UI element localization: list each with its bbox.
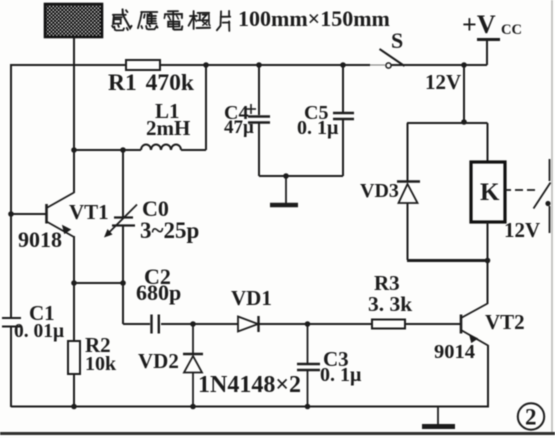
node: junction C3 top — [305, 321, 311, 327]
svg-text:K: K — [480, 179, 500, 206]
svg-text:1N4148×2: 1N4148×2 — [198, 372, 301, 398]
relay coil K — [471, 162, 505, 222]
node: junction top rail / L1 branch — [203, 62, 209, 68]
wire: top rail right of R1 — [160, 64, 370, 66]
wire: relay loop top — [407, 122, 488, 124]
label: sensing electrode text 感應電極片 — [112, 9, 230, 31]
resistor R2 — [68, 341, 80, 374]
wire: VD3 branch upper — [407, 123, 409, 181]
wire: C0 bottom to C2 rail — [123, 283, 150, 324]
svg-text:CC: CC — [501, 22, 522, 38]
label R3 3.3k — [368, 271, 412, 316]
svg-text:2mH: 2mH — [146, 116, 190, 140]
svg-text:VD1: VD1 — [231, 286, 272, 310]
svg-text:R1 470k: R1 470k — [108, 70, 195, 96]
svg-text:0. 01μ: 0. 01μ — [14, 321, 64, 342]
wire: top rail left — [10, 64, 126, 66]
transistor VT1 — [47, 193, 75, 238]
svg-text:2: 2 — [525, 405, 537, 430]
wire: L1 bottom horizontal — [74, 149, 206, 151]
label +Vcc — [462, 10, 522, 39]
svg-text:S: S — [391, 28, 403, 53]
svg-text:VD3: VD3 — [360, 180, 399, 202]
wire: K branch lower — [487, 222, 489, 260]
node: junction electrode lead / L1 wire — [71, 147, 77, 153]
relay contact (dashed link and contact at right) — [505, 159, 551, 233]
svg-text:9014: 9014 — [434, 341, 475, 363]
resistor R1 — [126, 60, 160, 70]
wire: C2 to VD1 — [161, 323, 238, 325]
node: junction R2 bottom — [71, 404, 77, 410]
wire: VT1 emitter vertical — [73, 236, 75, 283]
label C1 0.01u — [14, 301, 64, 342]
capacitor C5 — [333, 65, 354, 176]
wire: VD1 to R3 — [259, 323, 372, 325]
wire: K branch upper — [487, 123, 489, 162]
figure number circled 2 — [518, 403, 544, 429]
label C2 680p — [136, 264, 181, 305]
glyph 應 — [138, 12, 158, 29]
label C4 polarity plus — [246, 104, 256, 114]
svg-text:12V: 12V — [504, 218, 540, 242]
svg-text:10k: 10k — [85, 353, 117, 375]
ground (C4/C5) — [270, 176, 298, 205]
transistor VT2 — [461, 304, 488, 346]
diode VD2 — [183, 324, 203, 407]
wire: VT2 emitter vertical — [487, 345, 489, 408]
svg-text:9018: 9018 — [18, 227, 62, 252]
node: junction switch / 12V branch — [461, 62, 467, 68]
page rule line (bottom) — [0, 432, 555, 435]
label C3 0.1u — [320, 347, 362, 386]
svg-text:100mm×150mm: 100mm×150mm — [238, 6, 390, 31]
sensing electrode plate — [45, 4, 102, 37]
node: junction relay bottom / VT2 collector — [485, 258, 491, 264]
inductor L1 — [141, 145, 181, 151]
svg-text:3. 3k: 3. 3k — [368, 292, 412, 316]
node: junction top rail / C5 — [340, 62, 346, 68]
wire: R3 to VT2 base — [405, 323, 460, 325]
ground (main) — [422, 407, 455, 427]
wire: R2 branch lower — [73, 374, 75, 407]
svg-text:0. 1μ: 0. 1μ — [297, 117, 339, 139]
node: junction top rail / C4 — [256, 62, 262, 68]
capacitor C4 — [248, 65, 270, 176]
svg-text:VD2: VD2 — [138, 349, 179, 373]
variable capacitor C0 — [104, 150, 137, 283]
wire: left rail upper — [10, 64, 12, 318]
glyph 電 — [164, 11, 182, 29]
svg-text:VT2: VT2 — [485, 310, 525, 334]
node: junction relay top — [461, 119, 467, 125]
label C4 47u — [224, 102, 254, 138]
svg-text:47μ: 47μ — [224, 117, 254, 138]
node: junction C0 bottom — [120, 280, 126, 286]
wire: L1 branch vertical — [205, 65, 207, 150]
label R2 10k — [85, 333, 117, 375]
resistor R3 — [372, 320, 405, 329]
wire: electrode lead down — [73, 37, 75, 150]
wire: left rail lower — [10, 327, 12, 408]
node: junction VD2 top — [190, 321, 196, 327]
glyph 片 — [217, 11, 230, 31]
wire: C4-C5 bottom — [259, 175, 343, 177]
glyph 極 — [189, 11, 210, 29]
glyph 感 — [112, 9, 131, 30]
svg-text:3~25p: 3~25p — [140, 218, 199, 243]
wire: R2 branch upper — [73, 283, 75, 341]
svg-text:0. 1μ: 0. 1μ — [320, 364, 362, 386]
page edge line (right, faint) — [551, 0, 553, 433]
wire: VT2 collector vertical — [487, 260, 489, 304]
wire: bottom rail — [11, 406, 488, 408]
wire: switch to Vcc corner — [391, 64, 487, 66]
svg-text:680p: 680p — [136, 280, 181, 305]
label L1 2mH — [146, 99, 190, 140]
node: junction VD2 bottom — [190, 404, 196, 410]
node: junction C3 bottom — [305, 404, 311, 410]
node: junction ground stub — [283, 173, 289, 179]
diode VD1 — [238, 316, 259, 332]
diode VD3 — [397, 182, 420, 204]
capacitor C3 — [297, 324, 320, 407]
wire: collector lead VT1 — [73, 150, 75, 193]
svg-text:+V: +V — [462, 10, 496, 39]
capacitor C1 — [2, 318, 21, 327]
svg-text:12V: 12V — [425, 70, 461, 94]
node: junction left rail / base — [8, 211, 14, 217]
node: junction emitter / R2 — [71, 280, 77, 286]
capacitor C2 — [152, 315, 159, 334]
svg-text:VT1: VT1 — [69, 200, 109, 224]
wire: relay loop bottom — [407, 259, 488, 262]
wire: VT1 base lead — [11, 213, 46, 215]
label C5 0.1u — [297, 102, 339, 139]
wire: VD3 branch lower — [407, 203, 409, 260]
wire: 12V branch down — [463, 65, 465, 122]
node: junction C0 / L1 wire — [120, 147, 126, 153]
wire: emitter junction horizontal — [74, 282, 123, 284]
switch S — [380, 49, 405, 68]
power +Vcc terminal — [477, 40, 500, 66]
